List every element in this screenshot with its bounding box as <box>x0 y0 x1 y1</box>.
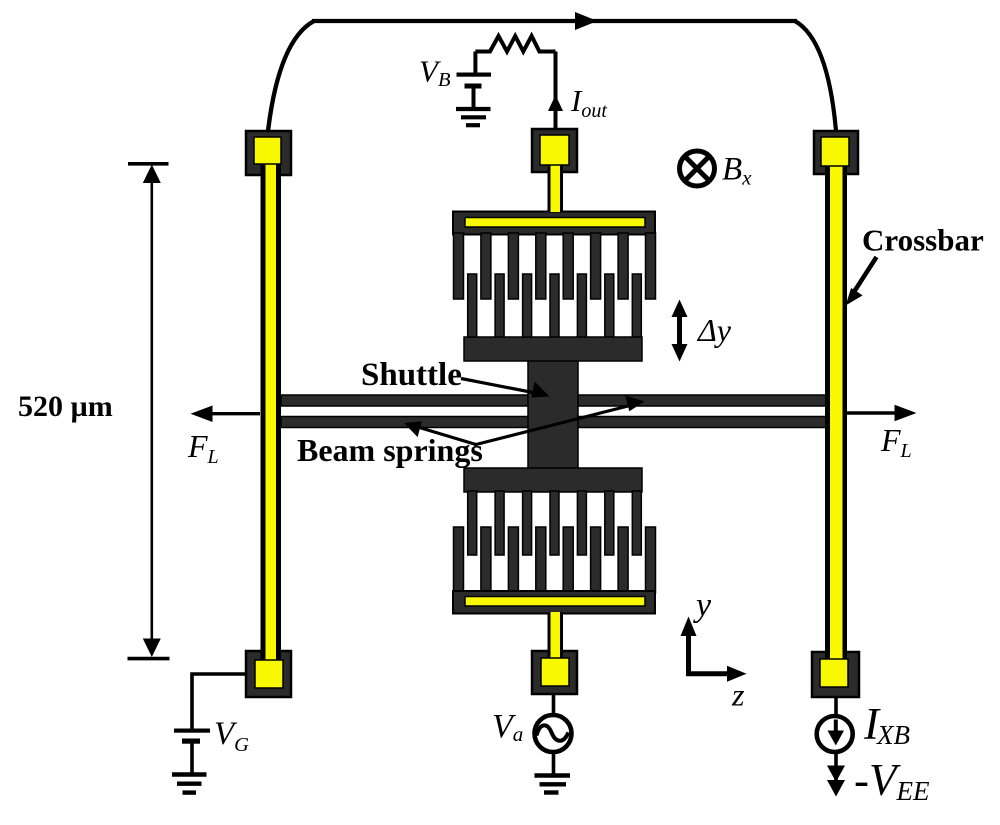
wire: battery to ground <box>472 88 476 108</box>
shuttle (central mass) <box>528 359 578 470</box>
pad top-left (yellow square) <box>254 137 281 164</box>
dimension line 520um <box>151 169 154 653</box>
resistor R (zigzag) <box>475 36 555 52</box>
battery V_B: short plate <box>465 84 482 89</box>
pad bottom-middle (yellow square) <box>541 658 569 686</box>
stem: yellow lead from top-middle pad to upper comb <box>548 158 564 212</box>
double arrowhead to -V_EE <box>827 766 845 783</box>
wire: I_XB source to -V_EE <box>834 753 838 785</box>
svg-text:Δy: Δy <box>696 312 732 348</box>
pad top-middle (dark frame) <box>532 129 577 172</box>
wire: bottom-right pad to I_XB source <box>834 696 838 716</box>
pad top-right (yellow square) <box>821 137 849 166</box>
lower comb: moving bar (attached to shuttle) <box>464 468 642 492</box>
lower comb: stator fingers (8, pointing up) <box>454 527 656 593</box>
y-z coordinate axes <box>686 632 691 676</box>
F_L arrow right <box>846 411 898 414</box>
pad bottom-right (dark frame) <box>812 652 859 697</box>
lower comb: yellow electrode strip <box>465 597 645 607</box>
wire: right arc from top wire to right pad <box>795 21 836 131</box>
wire: left arc from left pad to top wire <box>268 21 314 131</box>
pad top-left (dark frame) <box>246 131 291 175</box>
svg-text:Crossbar: Crossbar <box>862 223 984 258</box>
lower comb: rotor fingers (7, pointing down) <box>468 491 642 555</box>
upper comb: rotor fingers (7, pointing up from moving bar) <box>468 274 642 338</box>
beam spring upper <box>281 395 827 406</box>
dimension top arrowhead <box>143 165 161 184</box>
battery V_G: short plate <box>182 739 200 744</box>
wire: top horizontal interconnect <box>312 19 797 23</box>
crossbar left (vertical yellow bar) <box>261 150 282 670</box>
delta-y double arrow <box>677 312 682 349</box>
arrow from Beam springs label to left part of lower spring <box>416 427 476 445</box>
wire: resistor to top-middle pad (I_out branch) <box>554 52 558 130</box>
upper comb: fixed header bar <box>453 212 655 235</box>
svg-text:z: z <box>731 677 745 713</box>
svg-text:Shuttle: Shuttle <box>361 357 462 393</box>
beam spring lower <box>281 417 827 428</box>
current source I_XB (circle with down arrow) <box>817 716 853 752</box>
wire: bottom-left pad to V_G battery <box>192 674 246 729</box>
wire: bottom-middle pad to V_a source <box>552 694 556 715</box>
dimension bottom cap <box>128 657 170 661</box>
crossbar right (vertical yellow bar) <box>825 150 847 670</box>
wire: V_B battery lead up to resistor <box>473 52 477 74</box>
upper comb: stator fingers (8, pointing down) <box>454 233 656 299</box>
pad top-right (dark frame) <box>814 131 858 174</box>
lower comb: fixed bottom bar <box>453 591 655 614</box>
arrowhead on top wire <box>575 12 598 30</box>
wire: V_a source to ground <box>552 752 556 774</box>
I_out arrowhead (pointing up) <box>548 95 563 111</box>
pad bottom-left (yellow square) <box>255 660 283 688</box>
ground (V_G) <box>172 775 207 793</box>
stem: yellow lead from lower comb to bottom-middle pad <box>548 612 564 660</box>
arrow from Beam springs label to right part of upper spring <box>474 405 634 446</box>
arrow from Shuttle label to shuttle <box>461 379 538 394</box>
ground (V_B) <box>456 109 491 125</box>
arrow from Crossbar label to right crossbar <box>852 257 877 295</box>
battery V_G: long plate <box>174 729 210 733</box>
B_x field symbol (circle with X) <box>680 151 715 186</box>
dimension bottom arrowhead <box>143 639 161 658</box>
battery V_B: long plate <box>457 73 492 77</box>
ground (V_a) <box>535 776 571 793</box>
svg-text:y: y <box>693 587 712 624</box>
pad bottom-left (dark frame) <box>246 651 291 697</box>
F_L arrow left <box>208 412 260 415</box>
svg-text:520 µm: 520 µm <box>18 390 113 423</box>
wire: V_G battery to ground <box>190 743 194 773</box>
pad top-middle (yellow square) <box>540 135 569 165</box>
dimension top cap <box>128 162 169 166</box>
pad bottom-right (yellow square) <box>820 659 848 687</box>
pad bottom-middle (dark frame) <box>532 651 577 694</box>
upper comb: yellow electrode strip <box>465 218 645 228</box>
upper comb: moving bar (attached to shuttle) <box>464 337 642 361</box>
AC source V_a (circle with sine) <box>535 715 572 752</box>
